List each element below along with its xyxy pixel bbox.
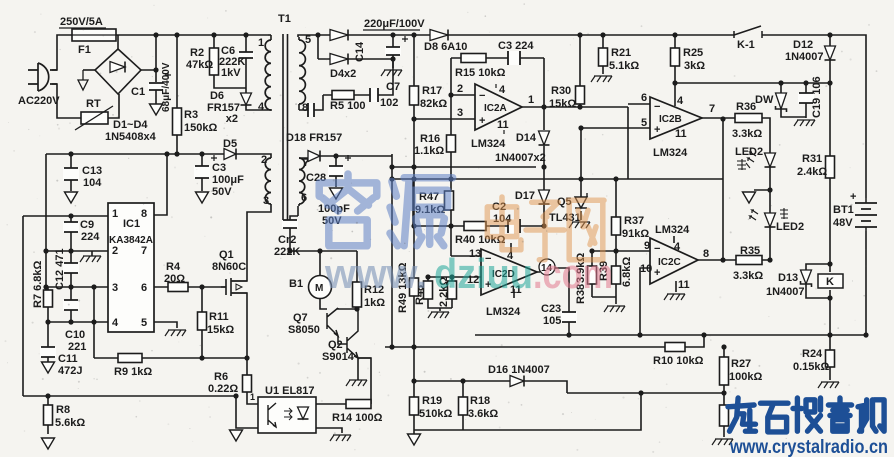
svg-text:S8050: S8050 <box>288 324 320 336</box>
svg-text:250V/5A: 250V/5A <box>60 16 103 28</box>
transformer T1 winding pins5-8 <box>299 40 305 104</box>
wire left column x46 <box>45 154 47 287</box>
svg-text:3: 3 <box>112 282 118 294</box>
wire primary stubs <box>270 35 272 110</box>
wire y347 line to bus <box>385 335 704 347</box>
svg-text:Q7: Q7 <box>293 312 308 324</box>
svg-text:R14 100Ω: R14 100Ω <box>332 412 383 424</box>
wire IC2D pin13 line <box>451 255 481 257</box>
svg-text:1.1kΩ: 1.1kΩ <box>414 145 444 157</box>
zener DW <box>776 93 787 109</box>
svg-text:7: 7 <box>709 103 715 115</box>
svg-text:M: M <box>315 283 323 294</box>
svg-text:R8: R8 <box>56 404 70 416</box>
wire D12 column <box>829 35 831 83</box>
resistor R38 3.9k <box>588 266 597 284</box>
resistor R11 15k <box>198 312 207 330</box>
resistor R27 100k <box>720 357 729 385</box>
wire x723 feedback column <box>722 119 724 260</box>
svg-text:Q1: Q1 <box>219 249 234 261</box>
svg-text:510kΩ: 510kΩ <box>419 408 452 420</box>
wire Q1 source down <box>232 293 247 358</box>
svg-text:472J: 472J <box>58 365 82 377</box>
svg-text:C7: C7 <box>386 81 400 93</box>
label red <box>780 208 788 219</box>
svg-text:C23: C23 <box>541 303 561 315</box>
svg-text:R5 100: R5 100 <box>330 100 365 112</box>
resistor R5 100 <box>332 91 354 100</box>
svg-text:1N4007x2: 1N4007x2 <box>495 152 546 164</box>
wire IC1 pin2 line <box>46 251 108 256</box>
capacitor C10 221 <box>63 300 79 310</box>
wire feedback y58 R15 C3 <box>451 57 544 59</box>
wire motor top node <box>290 251 357 276</box>
wire IC1 pin1 line / left outer column <box>23 216 108 396</box>
resistor R21 5.1k <box>599 48 608 66</box>
wire bus y83 <box>675 82 830 84</box>
wire R39 column <box>615 251 617 297</box>
svg-text:102: 102 <box>380 97 398 109</box>
wire D13 bracket <box>806 264 830 298</box>
watermark crystalradio glyph kuang <box>728 398 756 431</box>
diode D4 a <box>330 30 348 41</box>
capacitor C2 104 <box>508 219 520 233</box>
svg-text:2: 2 <box>112 245 118 257</box>
svg-text:5.6kΩ: 5.6kΩ <box>55 417 85 429</box>
motor B1 <box>309 276 332 299</box>
svg-text:D16 1N4007: D16 1N4007 <box>488 364 550 376</box>
resistor R18 3.6k <box>459 397 468 415</box>
wire R5 C7 line <box>323 59 393 95</box>
svg-text:8N60C: 8N60C <box>212 261 246 273</box>
resistor R3 150k <box>173 108 182 135</box>
diode D6 FR157 <box>241 93 252 105</box>
wire C6 D6 to transformer pin4 <box>246 35 272 110</box>
svg-text:R9 1kΩ: R9 1kΩ <box>114 366 152 378</box>
svg-text:R30: R30 <box>551 85 571 97</box>
resistor R49 13k <box>410 278 419 296</box>
svg-text:LED2: LED2 <box>735 146 763 158</box>
MOSFET Q1 8N60C <box>221 278 247 296</box>
svg-text:R11: R11 <box>209 311 229 323</box>
svg-text:3.6kΩ: 3.6kΩ <box>468 408 498 420</box>
diode D5 <box>224 149 236 160</box>
wire R17 column top <box>413 35 415 119</box>
svg-text:B1: B1 <box>289 278 303 290</box>
resistor R10 10k <box>665 343 685 352</box>
svg-text:1kΩ: 1kΩ <box>364 297 385 309</box>
ground below Q2 <box>346 380 367 386</box>
transformer T1 winding pins2-3 <box>265 158 271 204</box>
ground below C14 <box>381 70 402 76</box>
watermark crystalradio glyph yin <box>828 398 851 431</box>
svg-text:R36: R36 <box>736 101 756 113</box>
svg-text:DW: DW <box>755 94 774 106</box>
svg-text:4: 4 <box>499 84 506 96</box>
transformer T1 winding pins7-6 <box>299 158 305 204</box>
diode D14 <box>539 131 550 145</box>
svg-text:1: 1 <box>112 208 118 220</box>
svg-text:IC2A: IC2A <box>484 103 507 114</box>
svg-text:68μF/400V: 68μF/400V <box>161 62 172 112</box>
svg-text:Q2: Q2 <box>328 339 343 351</box>
wire IC2B pin5 to TL431 <box>581 128 650 197</box>
wire IC2A input lines <box>414 95 475 119</box>
svg-text:9: 9 <box>644 240 650 252</box>
svg-text:1: 1 <box>258 37 264 49</box>
capacitor C28 100pF 50V <box>328 166 344 176</box>
svg-text:R7 6.8kΩ: R7 6.8kΩ <box>32 260 44 308</box>
svg-text:D5: D5 <box>223 138 237 150</box>
resistor R19 510k <box>410 397 419 415</box>
opto transistor <box>268 403 276 427</box>
svg-text:C10: C10 <box>65 329 85 341</box>
wire R24 column <box>829 335 831 380</box>
capacitor C14 <box>385 47 401 55</box>
wire C3 drop <box>201 154 203 191</box>
svg-text:C1: C1 <box>131 86 145 98</box>
resistor R30 15k <box>576 86 585 104</box>
svg-text:C12 471: C12 471 <box>54 248 66 290</box>
svg-text:S9014: S9014 <box>322 351 355 363</box>
svg-text:AC220V: AC220V <box>18 95 60 107</box>
svg-text:15kΩ: 15kΩ <box>207 324 234 336</box>
diode D4 b <box>330 54 348 65</box>
diode D16 <box>510 376 524 387</box>
resistor R48 <box>424 281 433 299</box>
capacitor C1 68uF/400V <box>148 83 164 90</box>
wire to opto pin2 <box>236 396 258 428</box>
resistor R4 20 <box>168 283 188 292</box>
svg-text:224: 224 <box>81 231 100 243</box>
wire R9 bottom line <box>94 357 247 359</box>
svg-text:150kΩ: 150kΩ <box>184 122 217 134</box>
svg-text:4: 4 <box>677 95 684 107</box>
wire IC1 pin3 line <box>46 286 108 288</box>
svg-text:−: − <box>654 101 660 113</box>
wire IC2A output bus <box>522 107 628 179</box>
svg-text:R18: R18 <box>470 395 490 407</box>
svg-text:3: 3 <box>457 107 463 119</box>
ground below TL431 <box>569 222 590 228</box>
svg-text:1: 1 <box>250 392 255 402</box>
wire R11 column <box>201 287 203 358</box>
svg-text:R10 10kΩ: R10 10kΩ <box>653 355 704 367</box>
svg-text:R4: R4 <box>166 261 181 273</box>
svg-text:C14: C14 <box>354 41 366 62</box>
wire R37 column <box>615 179 617 251</box>
svg-text:8: 8 <box>141 208 147 220</box>
svg-text:dziuu: dziuu <box>434 250 533 297</box>
svg-text:R21: R21 <box>611 47 631 59</box>
ground below C11 <box>42 362 55 373</box>
svg-text:82kΩ: 82kΩ <box>420 98 447 110</box>
wire D16 line <box>414 381 724 393</box>
resistor R9 1k <box>118 354 142 363</box>
svg-text:220μF/100V: 220μF/100V <box>364 18 425 30</box>
wire R21 column <box>602 35 604 74</box>
wire C28 drop <box>335 156 337 187</box>
wire R40 C2 line y226 <box>413 225 544 227</box>
watermark orange glyph dian <box>487 197 521 250</box>
resistor R36 3.3k <box>735 114 762 123</box>
wire IC2D pin4 pin11 stubs <box>511 243 514 298</box>
ground below opto pin3 <box>330 435 351 441</box>
svg-text:BT1: BT1 <box>833 204 854 216</box>
op-amp IC2B <box>650 97 702 139</box>
capacitor C3 100uF 50V <box>194 166 210 178</box>
ground below R33 <box>712 439 733 445</box>
svg-text:3.3kΩ: 3.3kΩ <box>732 128 762 140</box>
wire IC1 pin6 through R4 to gate <box>154 286 226 288</box>
svg-text:20Ω: 20Ω <box>164 273 185 285</box>
svg-text:47kΩ: 47kΩ <box>186 59 213 71</box>
svg-text:R3: R3 <box>184 109 198 121</box>
resistor R37 91k <box>612 217 621 235</box>
transformer core <box>283 34 288 220</box>
LED LED2 red <box>765 213 776 227</box>
relay K <box>818 274 843 288</box>
wire bridge right vertex to C1 <box>141 35 156 104</box>
resistor R16 1.1k <box>447 135 456 152</box>
svg-text:RT: RT <box>86 98 101 110</box>
wire Q1 drain to pin3 <box>232 204 271 281</box>
capacitor C12 471 <box>63 263 79 273</box>
svg-text:D14: D14 <box>516 132 537 144</box>
svg-text:R15 10kΩ: R15 10kΩ <box>455 67 506 79</box>
svg-text:1N4007: 1N4007 <box>766 286 805 298</box>
wire R48 R43 columns <box>428 277 452 311</box>
wire IC2C pin9 line <box>592 250 650 252</box>
ground below R21 <box>591 76 612 82</box>
svg-text:K: K <box>826 276 834 288</box>
wire C10 drop <box>70 287 72 322</box>
svg-text:Cr2: Cr2 <box>278 234 296 246</box>
ground at IC1 pin2 <box>80 256 101 262</box>
svg-text:100kΩ: 100kΩ <box>729 371 762 383</box>
svg-text:1N5408x4: 1N5408x4 <box>105 131 157 143</box>
svg-text:4: 4 <box>674 241 681 253</box>
wire 154 line to D5 and pin2 <box>46 154 271 158</box>
wire IC2C pin4 stub <box>673 236 675 243</box>
svg-text:R35: R35 <box>740 245 760 257</box>
svg-text:4: 4 <box>258 101 265 113</box>
svg-text:6: 6 <box>301 192 307 204</box>
capacitor C9 224 <box>63 222 79 232</box>
resistor R39 <box>612 266 621 284</box>
svg-text:D18 FR157: D18 FR157 <box>286 132 342 144</box>
wire x451 column <box>450 58 452 256</box>
svg-text:+: + <box>654 267 660 279</box>
wire pin6 stub <box>297 206 299 216</box>
svg-text:R19: R19 <box>422 395 442 407</box>
watermark orange glyph wang <box>568 200 604 259</box>
watermark crystalradio glyph ji <box>858 400 884 431</box>
wire x544 column D14 <box>543 58 545 167</box>
transistor Q2 S9014 <box>338 309 371 358</box>
IC1 KA3842A <box>108 203 154 332</box>
svg-text:6.8kΩ: 6.8kΩ <box>621 257 633 287</box>
arrow at bridge left <box>78 70 88 90</box>
svg-text:5: 5 <box>641 117 647 129</box>
LED LED2 green <box>765 153 776 167</box>
svg-text:2: 2 <box>261 154 267 166</box>
wire IC1 pin4 line <box>48 321 108 323</box>
svg-text:222K: 222K <box>274 246 300 258</box>
svg-text:D1~D4: D1~D4 <box>113 119 148 131</box>
svg-text:R6: R6 <box>214 371 228 383</box>
svg-text:2: 2 <box>457 83 463 95</box>
transistor Q7 S8050 <box>327 308 357 336</box>
ground below C1 <box>150 104 163 115</box>
diode D12 <box>825 46 836 60</box>
battery BT1 48V <box>855 203 877 227</box>
svg-text:T1: T1 <box>278 13 291 25</box>
AC plug P1 <box>28 63 57 91</box>
resistor R6 0.22 <box>243 375 252 392</box>
capacitor C6 222K 1kV <box>238 52 254 58</box>
svg-text:1N4007: 1N4007 <box>785 51 824 63</box>
resistor R7 <box>44 290 53 307</box>
capacitor C13 104 <box>63 168 79 180</box>
svg-text:6: 6 <box>641 92 647 104</box>
ground below R8 <box>42 438 55 449</box>
wire Cr2 column to pin6 <box>290 216 298 251</box>
wire IC1 pin8 riser <box>154 154 167 215</box>
watermark url dziuu <box>324 250 613 297</box>
svg-text:−: − <box>479 90 485 102</box>
circled 14 <box>539 259 555 275</box>
wire x392 column <box>391 154 393 347</box>
op-amp IC2A <box>475 84 522 130</box>
svg-text:R25: R25 <box>683 47 703 59</box>
svg-text:R37: R37 <box>624 215 644 227</box>
svg-text:LM324: LM324 <box>655 224 690 236</box>
TL431 Q5 <box>575 193 587 208</box>
diode D8 <box>430 30 448 41</box>
ground below C13 <box>65 192 78 203</box>
wire bridge left vertex <box>83 69 95 71</box>
svg-text:6: 6 <box>141 282 147 294</box>
wire R38 R39 bottom to ground <box>592 297 616 304</box>
svg-text:4: 4 <box>112 317 119 329</box>
svg-text:IC2C: IC2C <box>658 257 681 268</box>
wire R18 column <box>462 381 464 430</box>
svg-text:D8 6A10: D8 6A10 <box>424 41 467 53</box>
svg-text:1kV: 1kV <box>221 67 241 79</box>
svg-text:104: 104 <box>83 177 102 189</box>
resistor R33 <box>720 405 729 426</box>
svg-text:5: 5 <box>305 34 311 46</box>
wire IC2C pin10 riser <box>640 268 650 335</box>
svg-text:1: 1 <box>528 94 534 106</box>
ground below C19 <box>794 120 815 126</box>
svg-text:+: + <box>654 124 660 136</box>
wire R25 column to IC2B pin4 <box>674 35 676 106</box>
ground open arrow <box>743 192 756 203</box>
label green <box>737 159 750 170</box>
resistor R40 10k <box>464 222 486 231</box>
wire D4 lower branch <box>318 37 393 59</box>
svg-text:11: 11 <box>678 279 690 291</box>
watermark crystalradio glyph shou <box>793 398 821 431</box>
svg-text:R2: R2 <box>190 47 204 59</box>
resistor R24 0.15k <box>826 350 835 367</box>
svg-text:LM324: LM324 <box>486 306 521 318</box>
svg-text:IC1: IC1 <box>123 218 140 230</box>
diode D18 FR157 <box>308 151 320 162</box>
svg-text:D4x2: D4x2 <box>330 68 356 80</box>
svg-text:7: 7 <box>141 245 147 257</box>
wire pin7 D18 line <box>299 156 392 158</box>
wire bus y167 <box>392 166 536 168</box>
svg-text:C11: C11 <box>58 353 78 365</box>
resistor R47 9.1k <box>445 191 454 210</box>
wire R31 relay column <box>829 83 831 335</box>
capacitor at pin8 <box>308 103 314 117</box>
wire R7 column <box>47 287 49 322</box>
opto arrows <box>284 408 292 420</box>
svg-text:C13: C13 <box>82 165 102 177</box>
svg-text:.com: .com <box>533 250 613 297</box>
resistor R17 82k <box>410 86 419 105</box>
wire C9 drop <box>70 216 72 251</box>
svg-text:−: − <box>654 243 660 255</box>
svg-text:LED2: LED2 <box>776 221 804 233</box>
wire C19 branch <box>805 83 807 118</box>
wire ground stub <box>413 430 415 434</box>
wire C13 drop <box>70 154 72 191</box>
svg-text:0.15kΩ: 0.15kΩ <box>793 361 830 373</box>
svg-text:10: 10 <box>640 263 652 275</box>
bridge rectifier D1-D4 <box>95 49 141 94</box>
capacitor C3 224 feedback <box>508 51 520 65</box>
wire IC2D pin12 line <box>428 276 481 278</box>
wire R19 column <box>413 381 415 430</box>
wire <box>268 34 271 36</box>
wire TL431 to ground <box>580 211 582 220</box>
wire motor bottom to Q7 <box>320 298 327 309</box>
resistor R15 10k <box>461 54 486 63</box>
resistor R8 5.6k <box>44 405 53 425</box>
capacitor C23 105 <box>561 312 577 322</box>
wire C14 column <box>392 35 394 68</box>
wire IC2C out through R35 <box>698 259 770 261</box>
svg-text:R16: R16 <box>420 133 440 145</box>
svg-text:3.3kΩ: 3.3kΩ <box>733 270 763 282</box>
svg-text:0.22Ω: 0.22Ω <box>208 383 238 395</box>
wire opto pin3 to ground <box>316 428 342 433</box>
wire plug bottom through RT to bridge bottom <box>52 84 119 118</box>
wire R12 column <box>356 251 358 309</box>
capacitor Cr2 222K <box>282 220 298 228</box>
svg-text:2.4kΩ: 2.4kΩ <box>797 166 827 178</box>
wire D17 column <box>543 167 545 226</box>
ground at IC1 pin5 <box>165 330 186 336</box>
wire y226 left riser <box>412 179 414 226</box>
wire DW zener branch <box>781 83 806 117</box>
svg-text:48V: 48V <box>833 217 853 229</box>
bridge diode symbol <box>110 62 125 73</box>
wire opto pin4 through R14 to Q2 <box>316 358 371 404</box>
resistor R25 3k <box>671 48 680 66</box>
wire bottom y430 line <box>414 393 641 430</box>
svg-text:F1: F1 <box>78 44 91 56</box>
resistor R31 2.4k <box>826 156 835 178</box>
svg-text:x2: x2 <box>226 113 238 125</box>
svg-text:11: 11 <box>675 128 687 140</box>
wire R38 column <box>591 251 593 297</box>
